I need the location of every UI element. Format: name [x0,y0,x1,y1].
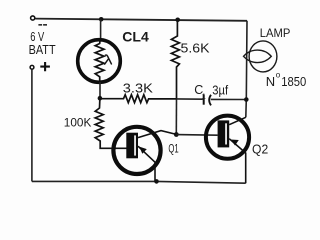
transistor Q1 emitter arrow [139,147,147,154]
transistor Q2 emitter arrow [231,140,239,146]
svg-text:LAMP: LAMP [260,26,291,40]
wire capacitor to Q2 collector node [211,98,247,100]
node junction dot top 5.6K branch [175,18,180,23]
resistor 5.6K [171,20,179,99]
transistor Q1 collector line [138,131,176,138]
transistor Q2 collector line [229,117,246,124]
svg-text:100K: 100K [64,116,92,130]
plus polarity mark [40,62,50,71]
svg-text:BATT: BATT [29,43,56,57]
svg-text:5.6K: 5.6K [181,42,211,56]
lamp circle [249,41,277,72]
wire left drop from + terminal [31,69,33,181]
transistor Q1 emitter line [138,146,155,181]
transistor Q2 circle [206,116,249,159]
node junction dot CL4 / 3.3K / 100K [98,96,103,101]
transistor Q1 circle [113,127,160,174]
wire CL4 bottom stub [99,82,101,98]
wire bottom rail [32,181,246,183]
node junction dot Q1 collector / Q2 base [174,132,179,137]
wire 5.6K lower drop to Q1 collector node [175,99,177,135]
svg-text:Q1: Q1 [168,143,178,155]
wire rail from crossing to capacitor [177,98,203,100]
wire Q2 base [176,134,217,137]
svg-text:6 V: 6 V [30,30,44,44]
node junction dot top CL4 branch [99,17,104,22]
resistor 100K [95,98,126,148]
photocell lambda symbol [105,55,112,64]
svg-text:N: N [266,74,275,89]
transistor Q1 base bar [126,133,138,159]
resistor 3.3K [100,95,177,103]
node junction dot capacitor to lamp wire [244,97,249,102]
transistor Q2 emitter line [229,139,246,184]
transistor Q2 base bar [218,120,230,147]
battery positive terminal [30,65,34,69]
svg-text:1850: 1850 [281,74,306,89]
battery negative terminal [31,16,35,20]
capacitor C1 left plate [203,95,205,105]
svg-text:1: 1 [202,92,206,101]
svg-text:Q2: Q2 [252,142,268,156]
capacitor C1 right curved plate [209,95,211,106]
photocell CL4 internal zigzag [95,41,104,82]
photocell CL4 circle [78,40,121,83]
svg-text:3.3K: 3.3K [123,81,154,95]
wire top rail [35,19,247,21]
svg-text:CL4: CL4 [122,28,149,44]
minus polarity mark [38,24,42,26]
lamp filament lens [244,50,272,62]
wire CL4 top drop [100,19,102,40]
svg-text:o: o [276,71,281,80]
svg-text:3µf: 3µf [212,83,228,97]
wire right drop from top rail through lamp [246,21,247,118]
node junction dot Q1 emitter to bottom rail [154,179,159,184]
